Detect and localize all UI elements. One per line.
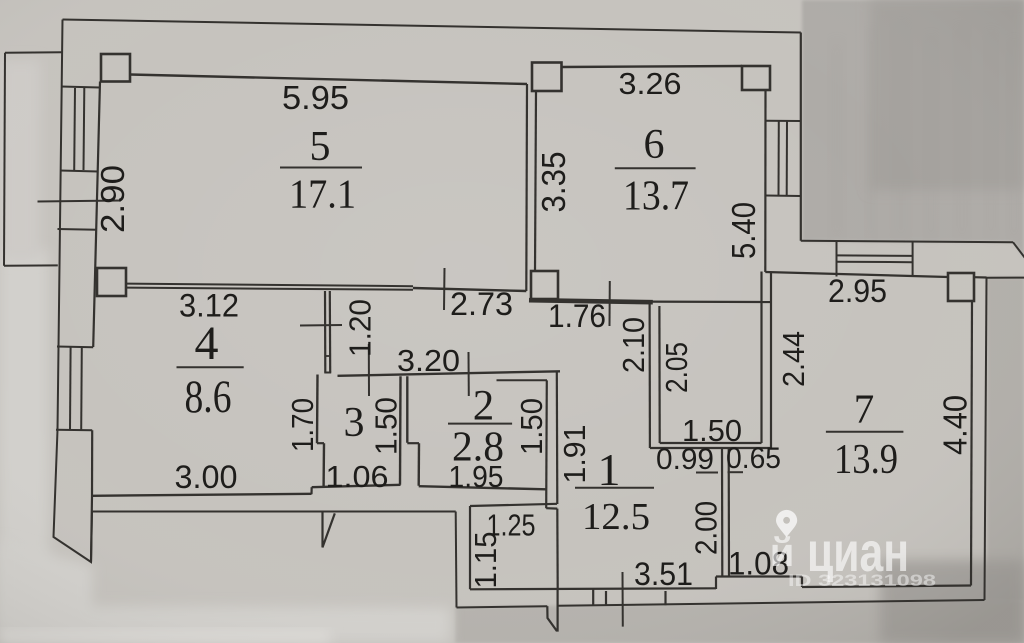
svg-text:2.90: 2.90 <box>94 165 131 233</box>
hall bottom wall right segment <box>716 575 802 577</box>
room7 right wall inner face <box>971 301 972 586</box>
room7 bottom step vertical <box>801 577 803 588</box>
svg-text:13.9: 13.9 <box>834 437 898 483</box>
balcony-side light touch <box>0 60 40 260</box>
room3 left wall jog <box>317 442 324 444</box>
room1 bottom wall inner <box>470 588 716 589</box>
dim line 0.65 <box>728 471 744 473</box>
shaft top <box>650 301 771 304</box>
corridor top wall single <box>413 288 526 291</box>
room4 fraction line <box>177 366 244 368</box>
room6 top wall <box>562 66 743 67</box>
room2 right wall inner jog <box>546 507 557 510</box>
rooms3/2 divider line A <box>399 376 402 485</box>
top-right dark photo region <box>802 0 1024 257</box>
balcony bottom <box>4 264 58 266</box>
outline top-right diagonal <box>1013 242 1024 258</box>
svg-text:4: 4 <box>195 317 219 370</box>
left wall inner face lower <box>91 430 93 496</box>
window W4 pane line b <box>837 261 913 264</box>
svg-text:1.50: 1.50 <box>369 397 404 455</box>
svg-text:1.15: 1.15 <box>468 532 503 589</box>
svg-text:1.20: 1.20 <box>343 299 378 357</box>
window W4 right cap <box>912 242 914 277</box>
room6 right wall inner face <box>764 90 766 272</box>
svg-text:13.7: 13.7 <box>623 174 689 220</box>
outline top-right horizontal <box>801 241 1013 243</box>
bottom-left bright strip <box>0 630 330 643</box>
shaft outer bottom <box>650 447 771 449</box>
window W4 pane line a <box>837 254 913 257</box>
svg-text:5.95: 5.95 <box>282 79 349 116</box>
shaft inner left <box>658 306 660 443</box>
room7 fraction line <box>826 431 904 433</box>
window W2 pane line a <box>69 347 72 430</box>
hall wall step at x716 <box>715 577 717 590</box>
window W3 pane line b <box>786 121 788 196</box>
room2 right wall outer <box>556 372 559 505</box>
entrance door flag <box>547 589 557 631</box>
window W2 bottom cap <box>56 429 92 432</box>
room5 bottom wall lower line <box>126 288 413 290</box>
dim tick 3.20 right <box>468 352 470 396</box>
svg-text:12.5: 12.5 <box>582 496 650 538</box>
bottom dark strip <box>455 600 1024 643</box>
window W2 top cap <box>57 346 93 349</box>
rooms 3/2 top wall <box>338 371 561 376</box>
svg-text:5.40: 5.40 <box>725 202 762 259</box>
svg-text:2.00: 2.00 <box>689 501 724 555</box>
window W3 pane line a <box>778 121 780 196</box>
room2 left wall lower <box>418 443 421 486</box>
watermark group <box>770 510 936 590</box>
outline lower-left horizontal <box>92 511 456 513</box>
dim tick 2.90 <box>38 201 122 202</box>
shaft inner right <box>760 272 762 444</box>
shaft outer right <box>770 272 772 449</box>
shaft inner bottom <box>660 442 762 444</box>
window W4 left cap <box>836 242 838 277</box>
outline right lower vertical <box>985 278 987 600</box>
outline left wall outer face + lower-left diagonal <box>54 20 93 563</box>
svg-text:7: 7 <box>854 386 875 432</box>
svg-text:2.05: 2.05 <box>659 342 694 393</box>
svg-text:3.12: 3.12 <box>179 288 239 324</box>
room5 top wall <box>130 75 527 85</box>
room1 fraction line <box>575 487 654 489</box>
room3 left wall lower <box>322 443 325 486</box>
room3 bottom wall <box>312 485 401 487</box>
pillar room5/6 top <box>532 63 562 92</box>
room2 fraction line <box>448 423 512 425</box>
bottom-left light zone <box>0 540 450 643</box>
room6 fraction line <box>615 167 696 169</box>
dim tick 3.20 left <box>368 344 370 396</box>
room2 bottom wall <box>419 486 547 489</box>
watermark location pin <box>776 510 797 537</box>
pillar room4 top-left <box>97 268 126 296</box>
outline bottom right of entrance <box>558 600 985 606</box>
left light margin <box>0 250 48 630</box>
room5 fraction line <box>280 167 362 169</box>
room4 bottom wall <box>92 494 312 496</box>
window W1 bottom cap <box>60 171 98 172</box>
dim tick 1.76 <box>609 281 611 326</box>
dim tick 3.51 <box>622 572 624 627</box>
svg-text:17.1: 17.1 <box>289 171 356 217</box>
door jamb x593 <box>592 589 594 606</box>
door jamb x606 <box>605 591 607 606</box>
pillar room5 top-left <box>101 54 130 82</box>
left wall inner face upper <box>93 82 100 348</box>
dim line 0.99 <box>696 472 718 474</box>
svg-text:й: й <box>770 531 795 575</box>
svg-text:2: 2 <box>473 383 495 430</box>
svg-text:2.10: 2.10 <box>616 317 651 373</box>
svg-text:ID 323131098: ID 323131098 <box>788 571 936 590</box>
svg-text:1.95: 1.95 <box>449 459 504 494</box>
dim tick 1.20 <box>300 324 342 327</box>
room2 door lintel line <box>497 379 548 381</box>
svg-text:5: 5 <box>310 124 331 170</box>
svg-text:0.99: 0.99 <box>656 443 714 476</box>
room7 top wall inner face <box>765 272 948 277</box>
window W3 top cap <box>766 120 801 122</box>
svg-text:1.91: 1.91 <box>557 425 592 484</box>
svg-text:3.20: 3.20 <box>397 343 460 378</box>
bottom-right corner deep shade <box>880 560 1024 643</box>
top-right vertical streaks <box>830 40 844 240</box>
door jamb x665 <box>664 591 666 605</box>
outline top <box>63 20 801 33</box>
room7 top wall right segment <box>974 276 987 278</box>
shaft outer left <box>648 302 651 448</box>
room4 right wall line b <box>329 291 332 373</box>
room7 bottom wall inner <box>802 586 971 588</box>
outline right upper vertical x801 <box>800 33 802 241</box>
svg-text:1.70: 1.70 <box>285 398 320 452</box>
pillar hall x531 <box>531 271 558 299</box>
room1 niche right wall <box>556 509 559 589</box>
room1 niche lintel <box>470 504 557 506</box>
hall/room7 wall left line <box>721 448 723 576</box>
balcony left <box>4 53 5 266</box>
svg-text:2.73: 2.73 <box>450 286 513 322</box>
room3 left wall upper <box>316 375 319 444</box>
window W2 pane line b <box>80 347 83 430</box>
hall/room7 wall right line <box>728 448 730 576</box>
svg-text:0.65: 0.65 <box>726 442 781 475</box>
svg-text:4.40: 4.40 <box>937 395 974 455</box>
top-right darker corner <box>870 0 1024 190</box>
pillar room6 top-right <box>742 66 770 90</box>
svg-text:3.51: 3.51 <box>634 556 693 592</box>
room4 right wall line a <box>324 291 326 373</box>
window W1 pane line b <box>83 88 86 170</box>
left wall inner face below room4 <box>91 496 92 562</box>
balcony top <box>5 51 62 54</box>
room2 left wall upper <box>406 376 408 443</box>
dim tick 2.73 <box>443 268 446 310</box>
room1 niche left wall <box>469 506 471 589</box>
window W3 bottom cap <box>766 195 801 198</box>
room5 bottom wall upper line <box>126 284 413 287</box>
room4 door flag at corridor <box>323 512 335 547</box>
svg-text:3: 3 <box>344 400 365 446</box>
svg-text:2.44: 2.44 <box>776 331 811 387</box>
svg-text:3.35: 3.35 <box>535 152 572 213</box>
room5 right wall outer face <box>525 84 528 291</box>
svg-text:2.95: 2.95 <box>828 273 887 309</box>
room6 bottom wall thick <box>529 300 653 302</box>
balcony door lower cap <box>58 228 98 231</box>
room4 wall connector <box>325 355 330 357</box>
room2 left wall jog <box>407 442 419 444</box>
svg-text:8.6: 8.6 <box>185 371 232 423</box>
outline top-right return cap <box>987 277 1024 279</box>
pillar room7 top-right <box>948 273 974 301</box>
svg-text:3.26: 3.26 <box>619 66 682 101</box>
room2 right wall inner <box>545 380 548 508</box>
room5 right wall inner face <box>535 91 536 272</box>
svg-text:3.00: 3.00 <box>175 459 238 495</box>
room4 wall end cap <box>324 372 331 374</box>
room3 door jamb bottom-left <box>310 487 312 494</box>
right margin strip <box>987 277 1024 601</box>
window W1 top cap <box>61 87 100 88</box>
svg-text:6: 6 <box>644 122 665 168</box>
svg-text:1.50: 1.50 <box>514 398 549 455</box>
svg-text:1.06: 1.06 <box>326 459 389 494</box>
outline bottom left of entrance <box>457 606 548 607</box>
outline step down at x456 <box>455 512 458 608</box>
svg-text:1.76: 1.76 <box>548 298 606 334</box>
window W1 pane line a <box>73 88 76 170</box>
